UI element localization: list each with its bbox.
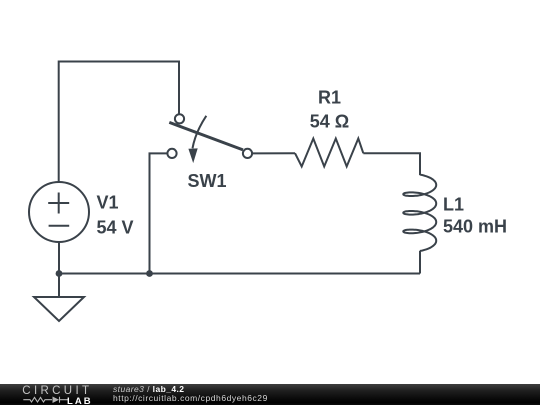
svg-text:V1: V1 [97,193,119,213]
svg-text:L1: L1 [443,195,464,215]
svg-text:SW1: SW1 [188,171,227,191]
svg-text:54 V: 54 V [97,218,134,238]
svg-text:54 Ω: 54 Ω [310,112,349,132]
svg-text:540 mH: 540 mH [443,217,507,237]
svg-text:R1: R1 [318,87,341,107]
